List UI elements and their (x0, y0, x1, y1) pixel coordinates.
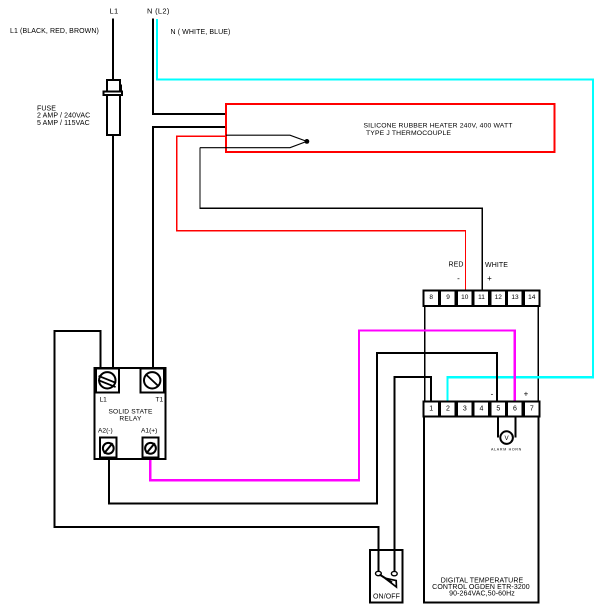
svg-text:1: 1 (429, 406, 433, 413)
solid state relay U2 (95, 368, 166, 459)
svg-text:4: 4 (480, 406, 484, 413)
svg-text:6: 6 (513, 406, 517, 413)
svg-text:N (L2): N (L2) (147, 7, 170, 16)
svg-text:WHITE: WHITE (485, 262, 508, 269)
svg-text:A2(-): A2(-) (98, 427, 113, 434)
svg-text:-: - (491, 390, 494, 399)
on/off switch S1 box (370, 550, 402, 603)
wire L1 vertical to fuse (112, 19, 114, 81)
svg-text:12: 12 (495, 294, 503, 301)
svg-text:ON/OFF: ON/OFF (373, 593, 400, 600)
svg-text:ALARM HORN: ALARM HORN (491, 448, 522, 452)
wire N vertical (153, 19, 227, 114)
pin numbers 8-14 (429, 294, 535, 301)
controller U1 lower body (424, 417, 539, 603)
svg-text:2 AMP / 240VAC: 2 AMP / 240VAC (37, 113, 90, 120)
svg-text:14: 14 (528, 294, 536, 301)
wire heater to relay T1 (153, 127, 227, 369)
svg-text:5 AMP / 115VAC: 5 AMP / 115VAC (37, 120, 90, 127)
wire fuse to relay L1 terminal (112, 135, 114, 369)
svg-text:+: + (524, 390, 529, 399)
svg-text:L1: L1 (100, 397, 108, 404)
svg-text:7: 7 (530, 406, 534, 413)
relay terminal T1 screw (141, 368, 164, 392)
svg-text:10: 10 (461, 294, 469, 301)
svg-text:N ( WHITE, BLUE): N ( WHITE, BLUE) (171, 29, 231, 36)
relay terminal A2 screw (100, 438, 116, 458)
wire L1 loop to on/off switch (55, 331, 379, 571)
svg-text:3: 3 (463, 406, 467, 413)
svg-text:-: - (457, 274, 460, 283)
fuse F1 (104, 80, 123, 135)
switch lever (380, 575, 393, 583)
wire thermocouple white lead to terminal 11 (200, 148, 482, 290)
svg-text:FUSE: FUSE (37, 105, 56, 112)
thermocouple tip junction (305, 139, 310, 144)
svg-text:11: 11 (478, 294, 485, 301)
svg-text:TYPE J THERMOCOUPLE: TYPE J THERMOCOUPLE (366, 130, 451, 137)
buzzer wires (497, 417, 499, 438)
wire SSR A1(+) to terminal 6 (magenta) (150, 331, 514, 481)
relay terminal A1 screw (142, 438, 158, 458)
svg-text:A1(+): A1(+) (141, 427, 157, 434)
pin numbers 1-7 (429, 406, 534, 413)
svg-text:SILICONE RUBBER HEATER 240V, 4: SILICONE RUBBER HEATER 240V, 400 WATT (364, 123, 513, 130)
svg-text:SOLID STATE: SOLID STATE (108, 408, 152, 415)
svg-text:RED: RED (449, 262, 464, 269)
wire SSR A2(-) to terminal 5 (109, 353, 497, 503)
switch terminal right (391, 571, 397, 575)
relay terminal L1 screw (96, 368, 119, 392)
svg-text:2: 2 (446, 406, 450, 413)
buzzer V1 (500, 431, 513, 444)
svg-text:5: 5 (496, 406, 500, 413)
svg-text:L1: L1 (110, 7, 119, 16)
svg-text:T1: T1 (156, 397, 164, 404)
svg-text:9: 9 (446, 294, 450, 301)
svg-text:90-264VAC,50-60Hz: 90-264VAC,50-60Hz (449, 591, 515, 598)
switch terminal left (376, 571, 382, 575)
svg-text:8: 8 (429, 294, 433, 301)
svg-text:+: + (487, 274, 492, 283)
controller body sides (424, 306, 426, 401)
svg-text:RELAY: RELAY (119, 415, 142, 422)
heater box (226, 104, 555, 152)
wire thermocouple red lead to terminal 10 (177, 136, 466, 290)
svg-text:L1 (BLACK, RED, BROWN): L1 (BLACK, RED, BROWN) (10, 28, 99, 35)
terminal strip 1-7 (423, 402, 539, 417)
wire switch to terminal 1 (395, 377, 431, 571)
terminal strip 8-14 (423, 291, 539, 307)
wire neutral (cyan) N to right side to terminal 2 (157, 19, 593, 402)
svg-text:13: 13 (511, 294, 519, 301)
thermocouple probe (200, 135, 307, 148)
